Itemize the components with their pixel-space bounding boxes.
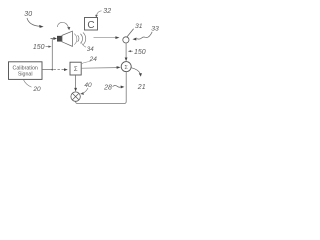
wire mic down to summer	[125, 43, 127, 59]
microphone stem	[127, 29, 134, 37]
box C	[85, 18, 98, 31]
label 34 with leader to waves	[82, 43, 87, 47]
svg-text:28: 28	[103, 85, 112, 92]
svg-text:21: 21	[137, 84, 146, 91]
svg-text:Σ: Σ	[74, 67, 78, 73]
label 20 with leader to calibration box	[24, 80, 32, 87]
svg-text:150: 150	[134, 49, 146, 56]
leader from 32 to box C	[97, 11, 102, 16]
svg-text:24: 24	[89, 56, 98, 63]
svg-text:Signal: Signal	[18, 71, 33, 77]
summer circle	[121, 62, 131, 72]
wire junction up to speaker	[51, 39, 53, 70]
label 150 right with left arrow	[130, 50, 133, 52]
leader arc over speaker	[57, 22, 68, 27]
svg-text:33: 33	[151, 25, 159, 32]
wire sigma box to summer	[82, 67, 117, 70]
output curve from summer to label 21	[132, 68, 141, 74]
noise squiggle arrow to mic	[137, 32, 152, 39]
microphone circle	[123, 37, 129, 43]
junction dot	[51, 69, 53, 71]
wire calibration box to junction	[42, 69, 52, 71]
speaker driver box	[57, 36, 62, 41]
dashed wire junction to sigma box	[54, 69, 65, 71]
sound propagation arrow to microphone	[94, 37, 117, 39]
svg-text:32: 32	[103, 8, 111, 15]
mixer circle with X	[71, 92, 80, 101]
speaker cone	[62, 31, 72, 46]
svg-text:150: 150	[33, 44, 45, 51]
leader arrow from 30 to speaker	[27, 18, 40, 26]
feedback wire: summer down, bottom, up to mixer	[76, 72, 127, 104]
svg-text:C: C	[87, 20, 94, 31]
speaker input arrow	[51, 38, 55, 40]
sound waves	[74, 34, 77, 45]
wire sigma box down to mixer	[75, 75, 77, 89]
svg-text:31: 31	[135, 23, 143, 30]
svg-text:30: 30	[24, 11, 32, 18]
sigma box	[70, 62, 81, 75]
calibration signal box	[9, 62, 43, 80]
svg-text:34: 34	[87, 46, 94, 53]
svg-text:20: 20	[32, 86, 41, 93]
